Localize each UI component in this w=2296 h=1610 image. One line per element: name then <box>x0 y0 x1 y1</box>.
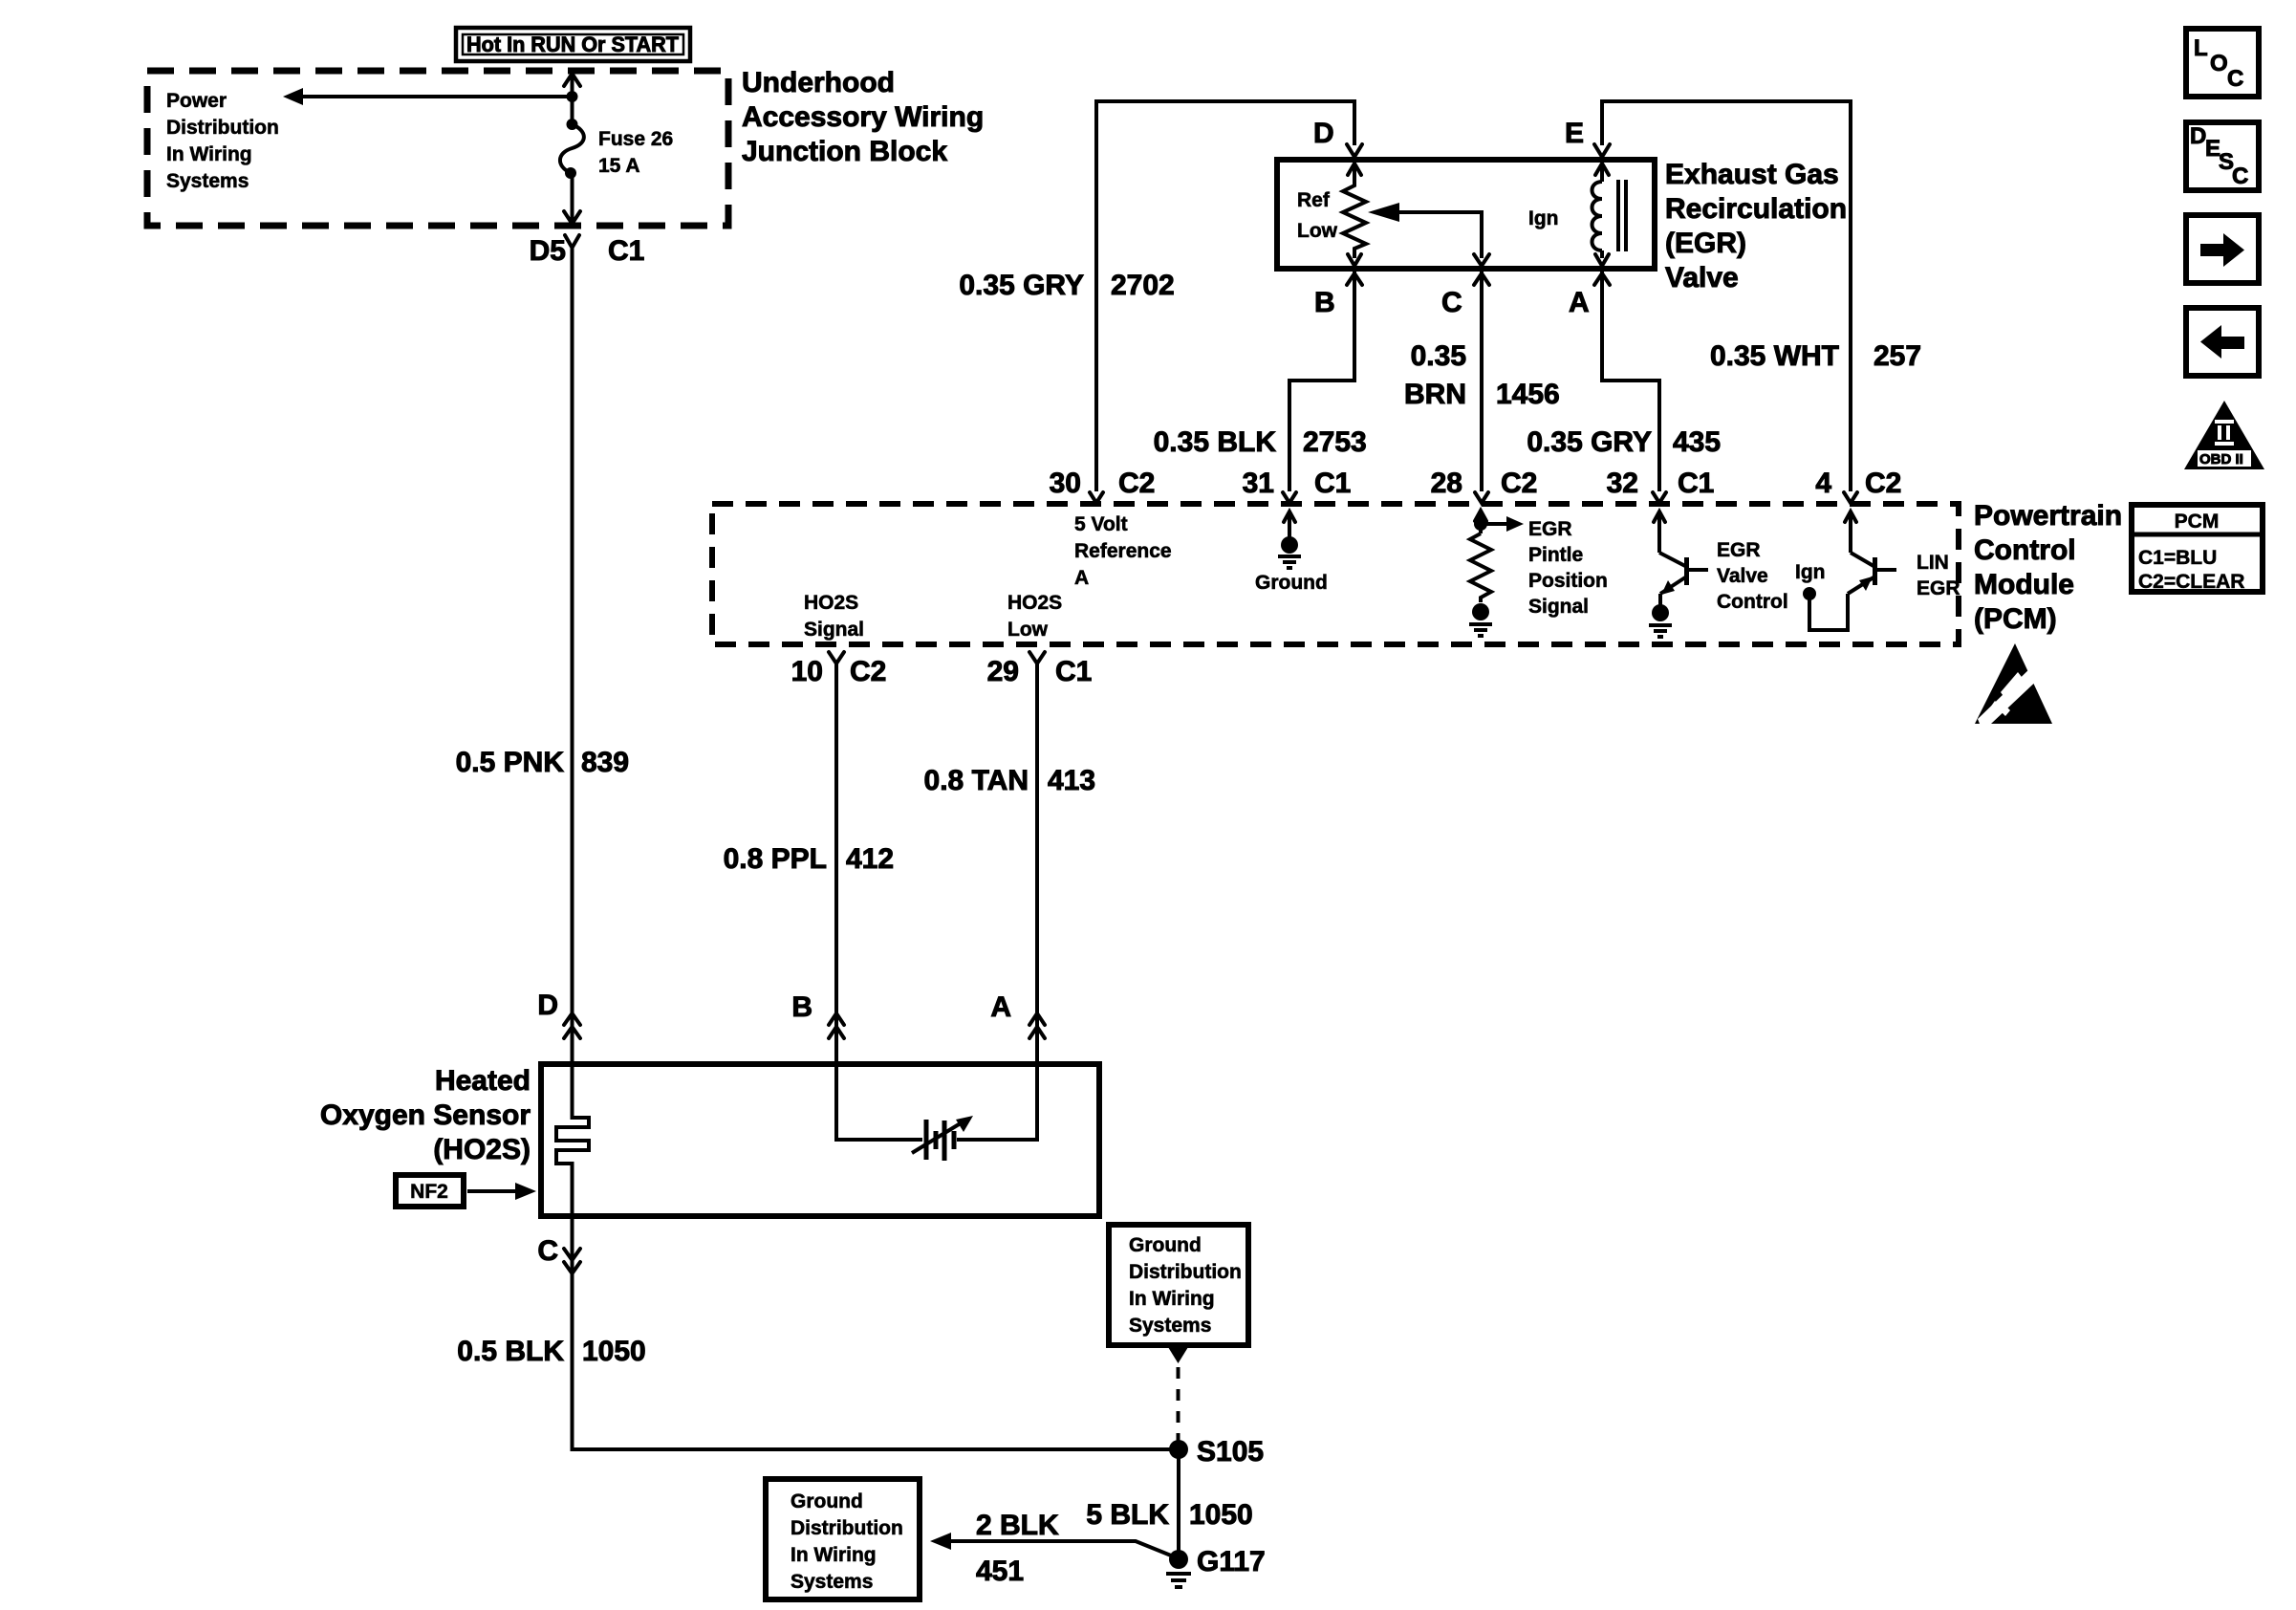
svg-text:Control: Control <box>1974 534 2076 566</box>
wire: PCM 10 to HO2S B (0.8 PPL 412) <box>834 675 838 1064</box>
pin 30 C2 <box>1050 468 1156 503</box>
internal variable sensor element between B and A <box>836 1064 1037 1161</box>
svg-text:EGR: EGR <box>1528 518 1572 540</box>
pin 32 C1 <box>1607 468 1715 503</box>
connector D5 C1 <box>530 235 645 267</box>
svg-text:C2: C2 <box>1865 468 1901 499</box>
PCM dashed box <box>712 504 1959 644</box>
wire: EGR A to PCM 32 (0.35 GRY 435) <box>1602 272 1659 491</box>
svg-text:1050: 1050 <box>1189 1499 1253 1531</box>
svg-text:0.35: 0.35 <box>1411 340 1466 372</box>
arrow chevron at box bottom <box>564 211 580 224</box>
pin 4 C2 <box>1815 468 1901 503</box>
svg-text:Reference: Reference <box>1074 540 1172 562</box>
pin 29 C1 <box>987 652 1093 687</box>
svg-text:(HO2S): (HO2S) <box>433 1134 531 1165</box>
pin 28 C2 <box>1431 468 1538 503</box>
svg-text:0.5 PNK: 0.5 PNK <box>456 747 565 778</box>
svg-text:In Wiring: In Wiring <box>791 1544 877 1566</box>
fuse F26 15A <box>560 119 673 179</box>
label 0.5 PNK 839 <box>456 747 629 778</box>
DESC icon <box>2186 122 2259 190</box>
ESD symbol <box>1975 643 2052 724</box>
node: fuse feed junction <box>567 91 578 102</box>
svg-text:Distribution: Distribution <box>1129 1261 1242 1283</box>
svg-text:EGR: EGR <box>1717 539 1761 561</box>
svg-text:B: B <box>791 991 812 1023</box>
svg-text:Ign: Ign <box>1795 561 1826 583</box>
svg-text:0.8 PPL: 0.8 PPL <box>724 843 827 875</box>
wire: power distribution arrow <box>294 95 573 98</box>
svg-text:HO2S: HO2S <box>804 592 858 614</box>
svg-text:NF2: NF2 <box>410 1181 448 1203</box>
svg-text:412: 412 <box>846 843 894 875</box>
svg-text:10: 10 <box>791 656 823 687</box>
internal EGR pintle position signal at pin 28 <box>1469 511 1608 636</box>
svg-text:C1: C1 <box>608 235 644 267</box>
svg-text:E: E <box>1565 118 1584 149</box>
svg-text:Position: Position <box>1528 570 1608 592</box>
connector chevron at box top <box>564 74 580 86</box>
connector D double chevron <box>537 990 580 1038</box>
svg-text:Systems: Systems <box>791 1571 873 1593</box>
NF2 reference box <box>396 1175 536 1207</box>
svg-text:0.35 BLK: 0.35 BLK <box>1154 426 1277 458</box>
svg-text:2753: 2753 <box>1303 426 1367 458</box>
pin 10 C2 <box>791 652 887 687</box>
back arrow icon <box>2186 308 2259 376</box>
svg-text:32: 32 <box>1607 468 1638 499</box>
svg-text:LIN: LIN <box>1917 552 1949 574</box>
svg-text:C1=BLU: C1=BLU <box>2138 547 2217 569</box>
svg-text:Oxygen Sensor: Oxygen Sensor <box>320 1099 531 1131</box>
svg-text:Underhood: Underhood <box>742 67 895 98</box>
svg-text:Low: Low <box>1007 619 1049 641</box>
svg-text:A: A <box>1074 567 1089 589</box>
svg-text:C: C <box>2232 163 2248 189</box>
HO2S label <box>320 1065 531 1165</box>
svg-text:D5: D5 <box>530 235 566 267</box>
connector E chevron <box>1594 144 1610 157</box>
svg-text:OBD II: OBD II <box>2199 451 2243 468</box>
ground distribution box left <box>766 1479 920 1599</box>
EGR valve label <box>1665 159 1847 294</box>
svg-text:839: 839 <box>581 747 629 778</box>
wire: fuse to connector D5 <box>571 173 574 223</box>
wire: EGR C to PCM 28 (0.35 BRN 1456) <box>1480 272 1484 491</box>
svg-text:BRN: BRN <box>1404 379 1466 410</box>
wire: S105 to G117 (5 BLK 1050) <box>1177 1449 1180 1559</box>
HO2S signal label <box>804 592 864 641</box>
svg-text:B: B <box>1314 287 1335 318</box>
svg-text:Heated: Heated <box>435 1065 531 1097</box>
svg-text:5 BLK: 5 BLK <box>1086 1499 1169 1531</box>
svg-text:A: A <box>1569 287 1590 318</box>
svg-text:1050: 1050 <box>582 1336 646 1367</box>
svg-text:C2: C2 <box>1118 468 1155 499</box>
EGR pot resistor Ref Low <box>1297 163 1366 266</box>
heater element <box>556 1064 589 1216</box>
hot-in-run label box <box>456 28 690 61</box>
EGR valve box <box>1277 160 1655 269</box>
connector B double chevron <box>791 991 844 1038</box>
underhood junction block dashed box <box>147 71 728 226</box>
wire: EGR E to PCM 4 (0.35 WHT 257) <box>1602 101 1851 491</box>
svg-text:Pintle: Pintle <box>1528 544 1583 566</box>
wire: PCM 29 to HO2S A (0.8 TAN 413) <box>1035 675 1039 1064</box>
connector A double chevron <box>990 991 1045 1038</box>
ground distribution box right <box>1109 1225 1248 1345</box>
svg-text:0.35 GRY: 0.35 GRY <box>959 270 1084 301</box>
off-page triangle <box>1168 1347 1188 1363</box>
svg-text:28: 28 <box>1431 468 1462 499</box>
EGR Ign coil <box>1528 163 1626 266</box>
svg-text:(PCM): (PCM) <box>1974 603 2057 635</box>
label 0.35 BLK 2753 <box>1154 426 1367 458</box>
HO2S low label <box>1007 592 1062 641</box>
internal ground at pin 31 <box>1255 511 1328 594</box>
label 5 BLK 1050 <box>1086 1499 1252 1531</box>
svg-text:PCM: PCM <box>2175 511 2220 533</box>
svg-text:4: 4 <box>1815 468 1831 499</box>
svg-text:D: D <box>2190 123 2206 149</box>
svg-text:Control: Control <box>1717 591 1788 613</box>
svg-text:5 Volt: 5 Volt <box>1074 513 1128 535</box>
svg-text:Ref: Ref <box>1297 189 1331 211</box>
svg-text:Ground: Ground <box>1129 1234 1202 1256</box>
svg-text:0.8 TAN: 0.8 TAN <box>924 765 1029 796</box>
connector B chevron <box>1347 273 1362 285</box>
svg-text:Signal: Signal <box>1528 596 1589 618</box>
wire: feed into junction block <box>571 75 574 124</box>
svg-text:O: O <box>2210 51 2228 76</box>
label 0.35 GRY 435 <box>1527 426 1721 458</box>
svg-text:0.35 GRY: 0.35 GRY <box>1527 426 1652 458</box>
svg-text:Power: Power <box>166 90 227 112</box>
connector D chevron <box>1347 144 1362 157</box>
svg-text:Junction Block: Junction Block <box>742 136 947 167</box>
svg-text:C: C <box>1441 287 1462 318</box>
svg-text:0.5 BLK: 0.5 BLK <box>457 1336 564 1367</box>
LOC icon <box>2186 29 2259 97</box>
svg-text:0.35 WHT: 0.35 WHT <box>1710 340 1839 372</box>
svg-text:413: 413 <box>1048 765 1095 796</box>
svg-text:Low: Low <box>1297 220 1338 242</box>
connector C chevron <box>1474 273 1489 285</box>
PCM label <box>1974 500 2122 635</box>
svg-text:2 BLK: 2 BLK <box>976 1510 1059 1541</box>
5 volt reference A label <box>1074 513 1172 589</box>
label 0.35 BRN 1456 <box>1404 340 1560 410</box>
svg-text:C1: C1 <box>1678 468 1714 499</box>
label 0.8 PPL 412 <box>724 843 894 875</box>
svg-text:L: L <box>2194 35 2208 61</box>
connector A chevron <box>1594 273 1610 285</box>
svg-text:C: C <box>537 1235 558 1267</box>
underhood junction block label <box>742 67 984 167</box>
svg-text:C1: C1 <box>1055 656 1092 687</box>
HO2S sensor box <box>541 1064 1099 1216</box>
label 0.5 BLK 1050 <box>457 1336 645 1367</box>
svg-text:Module: Module <box>1974 569 2074 600</box>
wire: HO2S C to S105 (0.5 BLK 1050) <box>573 1216 1180 1449</box>
svg-text:D: D <box>537 990 558 1021</box>
svg-text:Systems: Systems <box>1129 1315 1211 1337</box>
svg-text:257: 257 <box>1874 340 1921 372</box>
wire: EGR B to PCM 31 (0.35 BLK 2753) <box>1289 272 1354 491</box>
svg-text:Valve: Valve <box>1665 262 1739 294</box>
wire: 2 BLK 451 to G117 <box>930 1510 1176 1587</box>
svg-text:Powertrain: Powertrain <box>1974 500 2122 532</box>
transistor Q1 EGR valve control <box>1649 511 1788 637</box>
svg-text:Ground: Ground <box>1255 572 1328 594</box>
EGR wiper arm to pin C <box>1368 203 1489 266</box>
svg-text:Recirculation: Recirculation <box>1665 193 1847 225</box>
svg-text:Distribution: Distribution <box>166 117 279 139</box>
svg-text:(EGR): (EGR) <box>1665 228 1746 259</box>
PCM connector legend <box>2132 505 2263 593</box>
svg-text:D: D <box>1313 118 1334 149</box>
svg-text:EGR: EGR <box>1917 577 1960 599</box>
dashed wire to S105 <box>1177 1367 1180 1442</box>
wire: EGR D to PCM 30 (0.35 GRY 2702) <box>1096 101 1354 491</box>
label 0.8 TAN 413 <box>924 765 1096 796</box>
svg-text:29: 29 <box>987 656 1019 687</box>
svg-text:Hot In RUN Or START: Hot In RUN Or START <box>466 33 680 56</box>
svg-text:C2=CLEAR: C2=CLEAR <box>2138 571 2244 593</box>
svg-text:Accessory Wiring: Accessory Wiring <box>742 101 984 133</box>
svg-text:15 A: 15 A <box>598 155 640 177</box>
svg-text:In Wiring: In Wiring <box>166 143 252 165</box>
svg-text:435: 435 <box>1673 426 1721 458</box>
svg-text:A: A <box>990 991 1011 1023</box>
label 0.35 WHT 257 <box>1710 340 1921 372</box>
svg-text:G117: G117 <box>1197 1546 1266 1577</box>
svg-text:C2: C2 <box>1501 468 1537 499</box>
svg-text:Signal: Signal <box>804 619 864 641</box>
node S105 <box>1169 1436 1264 1468</box>
svg-text:2702: 2702 <box>1111 270 1175 301</box>
ground G117 <box>1166 1546 1266 1587</box>
svg-text:451: 451 <box>976 1556 1024 1587</box>
svg-text:In Wiring: In Wiring <box>1129 1288 1215 1310</box>
svg-text:HO2S: HO2S <box>1007 592 1062 614</box>
svg-text:30: 30 <box>1050 468 1081 499</box>
svg-text:1456: 1456 <box>1496 379 1560 410</box>
svg-text:Valve: Valve <box>1717 565 1768 587</box>
forward arrow icon <box>2186 215 2259 283</box>
OBD II icon <box>2184 401 2264 469</box>
svg-text:C1: C1 <box>1314 468 1351 499</box>
svg-text:Fuse 26: Fuse 26 <box>598 128 673 150</box>
svg-text:Ign: Ign <box>1528 207 1559 229</box>
power distribution label <box>166 90 279 192</box>
svg-text:Systems: Systems <box>166 170 249 192</box>
transistor Q2 LIN EGR with Ign <box>1795 511 1960 630</box>
svg-text:S105: S105 <box>1197 1436 1264 1468</box>
svg-text:Distribution: Distribution <box>791 1517 903 1539</box>
svg-text:Ground: Ground <box>791 1490 863 1512</box>
wire: 0.5 PNK 839 vertical <box>571 260 574 1064</box>
svg-text:C: C <box>2227 66 2243 92</box>
svg-text:Exhaust Gas: Exhaust Gas <box>1665 159 1839 190</box>
svg-text:C2: C2 <box>850 656 886 687</box>
connector C double chevron <box>537 1235 580 1273</box>
pin 31 C1 <box>1243 468 1352 503</box>
svg-text:31: 31 <box>1243 468 1274 499</box>
label 0.35 GRY 2702 <box>959 270 1174 301</box>
